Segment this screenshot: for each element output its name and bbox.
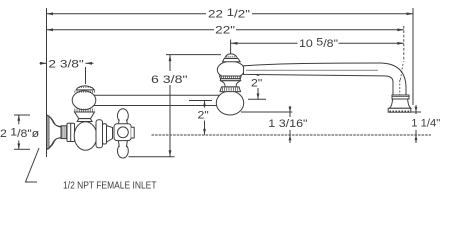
svg-text:22 1/2": 22 1/2" — [208, 7, 250, 21]
svg-text:1 1/4": 1 1/4" — [411, 118, 440, 130]
svg-text:2 1/8"ø: 2 1/8"ø — [0, 127, 39, 141]
svg-text:6 3/8": 6 3/8" — [151, 74, 188, 86]
svg-text:22": 22" — [215, 24, 235, 36]
svg-text:2 3/8": 2 3/8" — [48, 58, 84, 70]
svg-text:1/2 NPT FEMALE INLET: 1/2 NPT FEMALE INLET — [63, 181, 157, 192]
svg-text:10 5/8": 10 5/8" — [299, 37, 338, 51]
svg-text:2": 2" — [251, 78, 262, 90]
svg-text:1 3/16": 1 3/16" — [268, 118, 307, 130]
svg-text:2": 2" — [198, 110, 209, 122]
